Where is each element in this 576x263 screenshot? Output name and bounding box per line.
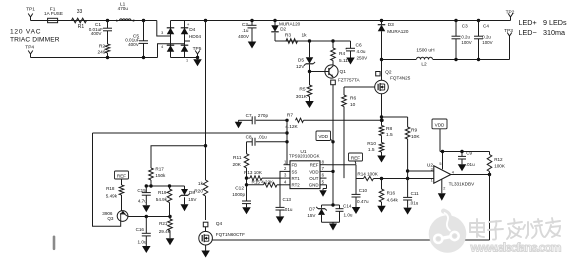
resistor R21 xyxy=(169,217,171,220)
resistor R20 xyxy=(203,180,208,196)
svg-text:MURA120: MURA120 xyxy=(387,29,409,34)
svg-text:www.elecfans.com: www.elecfans.com xyxy=(470,241,562,255)
svg-text:SS: SS xyxy=(292,169,298,174)
svg-text:150k: 150k xyxy=(155,173,166,178)
resistor R10 xyxy=(381,136,383,143)
svg-text:GND: GND xyxy=(309,183,319,188)
svg-text:R5: R5 xyxy=(299,86,305,92)
svg-text:R2: R2 xyxy=(99,44,105,50)
resistor R15 xyxy=(247,184,264,186)
ground at C13 xyxy=(276,216,285,223)
resistor R3 xyxy=(286,39,298,44)
wire LED return rail xyxy=(433,59,510,61)
wire VDD clamp bottom xyxy=(322,221,340,223)
wire L2 node xyxy=(380,58,383,61)
net label VDD box U1 xyxy=(316,131,331,141)
ground at R21 xyxy=(166,238,175,245)
capacitor C3 xyxy=(454,19,457,22)
svg-text:1: 1 xyxy=(431,178,433,182)
svg-text:310ma: 310ma xyxy=(543,28,565,37)
svg-text:TPS92010DGK: TPS92010DGK xyxy=(289,154,320,159)
wire Q4 drain line xyxy=(204,19,207,22)
svg-text:D4: D4 xyxy=(189,27,195,33)
resistor R2 xyxy=(107,31,109,44)
capacitor C13 xyxy=(276,206,285,208)
pad Q2 gate square xyxy=(376,72,380,76)
svg-text:TP1: TP1 xyxy=(26,7,35,13)
svg-text:FQT1N60CTF: FQT1N60CTF xyxy=(216,232,245,237)
ground at D8 xyxy=(181,204,189,211)
svg-text:C11: C11 xyxy=(411,191,420,196)
resistor R12 xyxy=(489,152,491,155)
svg-text:4.64k: 4.64k xyxy=(387,197,399,202)
svg-text:100K: 100K xyxy=(494,164,506,169)
ground at R5 xyxy=(305,101,314,108)
svg-text:1500 uH: 1500 uH xyxy=(416,48,435,54)
svg-text:C3: C3 xyxy=(462,23,468,28)
svg-text:3: 3 xyxy=(431,167,433,171)
svg-text:1.5: 1.5 xyxy=(386,132,393,138)
svg-text:R13 10K: R13 10K xyxy=(244,170,263,175)
wire FB node xyxy=(285,119,288,122)
svg-text:1.5: 1.5 xyxy=(368,147,375,153)
svg-text:+: + xyxy=(187,22,190,27)
resistor R17 xyxy=(151,146,206,168)
capacitor C1 xyxy=(106,19,109,22)
svg-text:VDD: VDD xyxy=(435,123,445,128)
svg-text:C13: C13 xyxy=(283,197,292,202)
svg-text:R12: R12 xyxy=(494,157,503,162)
wire VDD U2 rail xyxy=(440,151,490,153)
resistor R5 xyxy=(309,72,311,86)
ground at C16 xyxy=(142,246,151,253)
svg-text:400V: 400V xyxy=(91,31,103,36)
diode bridge D4 left leg xyxy=(170,21,172,58)
wire AC line top xyxy=(31,20,157,22)
svg-text:R1: R1 xyxy=(78,24,85,30)
svg-text:L2: L2 xyxy=(421,62,427,68)
capacitor C16 xyxy=(145,217,147,234)
ground at C12 xyxy=(242,207,251,214)
svg-text:TL331KDBV: TL331KDBV xyxy=(449,182,475,187)
svg-text:4: 4 xyxy=(161,45,163,49)
ground at U1 GND pin xyxy=(326,185,328,189)
net label REF box Q3 xyxy=(115,171,129,179)
net label REF box xyxy=(349,153,363,161)
fuse F1 xyxy=(48,18,58,22)
svg-text:.1u: .1u xyxy=(242,28,249,33)
watermark logo xyxy=(429,211,467,253)
svg-text:TP2: TP2 xyxy=(506,9,515,15)
svg-text:3: 3 xyxy=(161,31,163,35)
svg-text:VDD: VDD xyxy=(318,134,328,139)
svg-text:TP4: TP4 xyxy=(25,44,34,50)
svg-text:C16: C16 xyxy=(136,227,145,232)
svg-text:R7: R7 xyxy=(287,112,293,118)
resistor R19 xyxy=(169,186,171,189)
svg-text:D8: D8 xyxy=(189,190,195,195)
svg-text:OUT: OUT xyxy=(309,176,319,181)
svg-text:15V: 15V xyxy=(188,197,197,202)
capacitor C11 xyxy=(403,196,412,198)
svg-text:TRIAC DIMMER: TRIAC DIMMER xyxy=(10,37,60,44)
wire FB long xyxy=(93,132,288,134)
wire to R9 xyxy=(382,116,408,118)
svg-text:FZT757TA: FZT757TA xyxy=(338,77,361,82)
svg-text:D3: D3 xyxy=(388,22,394,28)
svg-text:R4: R4 xyxy=(339,51,345,57)
wire VDD rail vertical xyxy=(332,85,334,205)
svg-text:FB: FB xyxy=(292,163,298,168)
pad Q4 gate square xyxy=(203,222,208,227)
transistor Q2 xyxy=(375,80,389,94)
svg-text:REF: REF xyxy=(117,173,126,178)
ground at R16 xyxy=(377,206,386,213)
mark gray bar xyxy=(53,236,56,251)
wire U2 output xyxy=(451,174,490,176)
svg-text:4.0u: 4.0u xyxy=(357,49,366,54)
svg-text:C9: C9 xyxy=(466,151,472,156)
ground at C15 xyxy=(142,205,150,212)
svg-text:R17: R17 xyxy=(155,166,164,171)
svg-text:R3: R3 xyxy=(285,32,291,38)
svg-text:5.49k: 5.49k xyxy=(106,193,118,198)
svg-text:D2: D2 xyxy=(280,27,286,32)
watermark chinese text xyxy=(470,219,484,237)
svg-text:10K: 10K xyxy=(411,134,420,140)
ground at C11 xyxy=(403,208,412,215)
svg-text:FQT4N25: FQT4N25 xyxy=(390,76,411,81)
wire bias rail xyxy=(275,40,351,42)
resistor R6 xyxy=(344,86,375,88)
svg-text:.01u: .01u xyxy=(258,134,267,139)
svg-text:R11: R11 xyxy=(233,155,242,161)
svg-text:0.2u: 0.2u xyxy=(482,35,491,40)
svg-text:VDD: VDD xyxy=(309,169,318,174)
wire AC line bottom xyxy=(31,57,158,59)
diode D7 zener xyxy=(321,205,323,208)
wire R6 to OUT xyxy=(343,107,345,179)
wire VDD pin7 xyxy=(327,170,334,172)
resistor R4 xyxy=(331,39,334,42)
svg-text:C8: C8 xyxy=(246,134,252,139)
diode D5 zener xyxy=(308,39,311,42)
svg-text:.01u: .01u xyxy=(284,207,293,212)
wire FB down-left xyxy=(93,133,121,226)
ground at C7 xyxy=(238,120,240,122)
svg-text:C15: C15 xyxy=(137,188,146,193)
ground at C2 xyxy=(248,42,257,49)
op-amp U2 xyxy=(434,166,451,183)
wire Q2 source xyxy=(381,94,383,126)
capacitor C2 xyxy=(250,19,253,22)
svg-text:R18: R18 xyxy=(106,186,115,191)
ground at C6 xyxy=(346,58,355,65)
svg-text:+: + xyxy=(345,46,348,51)
ground at C10 xyxy=(352,207,361,214)
svg-text:R14 100K: R14 100K xyxy=(357,171,378,176)
svg-text:RT2: RT2 xyxy=(292,183,301,188)
diode D8 zener xyxy=(184,186,186,189)
inductor L2 xyxy=(417,57,433,59)
capacitor C12 xyxy=(242,200,251,202)
inductor L1 xyxy=(120,19,132,21)
svg-text:Q3: Q3 xyxy=(107,216,114,221)
ground at R10 xyxy=(377,156,386,163)
svg-text:120 VAC: 120 VAC xyxy=(10,28,41,35)
svg-text:R9: R9 xyxy=(411,127,417,133)
svg-text:R20: R20 xyxy=(194,188,203,194)
ground at Q4 source xyxy=(205,245,207,251)
svg-text:20K: 20K xyxy=(232,162,241,168)
capacitor C6 xyxy=(350,41,352,48)
capacitor C15 xyxy=(145,186,147,193)
svg-text:R19: R19 xyxy=(158,190,167,195)
svg-text:Q1: Q1 xyxy=(340,69,347,75)
resistor R11 xyxy=(246,142,248,154)
svg-text:15V: 15V xyxy=(307,213,316,218)
wire gate drive long xyxy=(212,239,490,241)
svg-text:C10: C10 xyxy=(359,188,368,193)
resistor R14 xyxy=(356,178,364,180)
svg-text:R8: R8 xyxy=(386,126,392,132)
svg-text:100V: 100V xyxy=(482,40,492,45)
capacitor C9 xyxy=(461,152,463,157)
capacitor C14 xyxy=(339,205,341,209)
svg-text:1A FUSE: 1A FUSE xyxy=(44,11,63,16)
pad Q1 emitter square xyxy=(331,80,336,85)
svg-text:R6: R6 xyxy=(350,95,356,101)
svg-text:4: 4 xyxy=(452,170,454,174)
transistor Q1 xyxy=(325,65,338,78)
svg-text:400V: 400V xyxy=(238,34,250,39)
resistor R13 xyxy=(247,177,251,179)
svg-text:54.9k: 54.9k xyxy=(156,197,168,202)
svg-text:D5: D5 xyxy=(298,57,304,63)
svg-text:9 LEDs: 9 LEDs xyxy=(543,18,567,27)
svg-text:249: 249 xyxy=(97,49,105,55)
svg-text:C6: C6 xyxy=(356,42,362,48)
net label VDD box U2 xyxy=(432,119,447,129)
resistor R9 xyxy=(407,117,409,127)
svg-text:REF: REF xyxy=(351,155,360,160)
svg-text:470u: 470u xyxy=(118,6,129,11)
svg-text:2: 2 xyxy=(443,186,445,190)
svg-text:R10: R10 xyxy=(367,141,376,147)
svg-text:10: 10 xyxy=(350,102,356,108)
svg-text:1.0u: 1.0u xyxy=(138,240,147,245)
svg-text:1000p: 1000p xyxy=(232,192,245,197)
svg-text:Q4: Q4 xyxy=(216,221,223,227)
svg-text:C14: C14 xyxy=(343,203,352,208)
svg-text:1k: 1k xyxy=(301,32,307,38)
svg-text:0.47u: 0.47u xyxy=(357,199,369,204)
ground at C9 xyxy=(458,164,467,171)
svg-text:LED−: LED− xyxy=(519,28,537,37)
svg-text:REF: REF xyxy=(310,163,319,168)
resistor R16 xyxy=(381,179,383,190)
resistor R18 xyxy=(121,179,123,185)
wire into Q4 xyxy=(205,227,207,232)
wire SS xyxy=(280,171,284,207)
wire bridge negative rail xyxy=(171,57,198,59)
svg-text:100V: 100V xyxy=(461,40,471,45)
resistor R1 xyxy=(71,18,86,23)
svg-text:C4: C4 xyxy=(483,23,489,28)
diode D2 xyxy=(273,19,276,22)
wire Q1 base xyxy=(310,71,325,73)
svg-text:LED+: LED+ xyxy=(519,18,537,27)
svg-text:1.0u: 1.0u xyxy=(344,213,353,218)
svg-text:12V: 12V xyxy=(296,64,305,70)
capacitor C5 xyxy=(142,19,145,22)
wire Q3 collector xyxy=(128,216,170,218)
svg-text:250V: 250V xyxy=(357,55,369,60)
svg-text:R21: R21 xyxy=(159,221,168,226)
transistor Q4 xyxy=(199,231,213,245)
svg-text:400V: 400V xyxy=(128,42,140,47)
svg-text:R16: R16 xyxy=(387,190,396,195)
wire sense to comparator xyxy=(407,139,409,197)
capacitor C8 xyxy=(247,141,253,143)
svg-text:R15 4.22K: R15 4.22K xyxy=(252,179,275,184)
resistor R8 xyxy=(379,126,384,136)
svg-text:.01u: .01u xyxy=(409,201,418,206)
wire VDD clamp top xyxy=(322,204,340,206)
svg-text:.01u: .01u xyxy=(466,162,475,167)
resistor R7 xyxy=(296,118,304,122)
diode D3 xyxy=(380,19,383,22)
svg-text:D7: D7 xyxy=(309,206,315,211)
svg-text:1k: 1k xyxy=(198,181,204,187)
wire top DC rail xyxy=(171,20,511,22)
svg-text:0.2u: 0.2u xyxy=(461,35,470,40)
svg-text:C7: C7 xyxy=(246,113,252,118)
svg-text:33: 33 xyxy=(77,9,83,15)
svg-text:270p: 270p xyxy=(258,113,269,118)
ground at U2 xyxy=(441,180,443,194)
wire R17 node xyxy=(146,185,184,187)
svg-text:29.4k: 29.4k xyxy=(159,229,171,234)
IC U1 TPS92010 xyxy=(290,161,320,189)
svg-text:1: 1 xyxy=(186,59,188,63)
wire REF net xyxy=(327,164,357,166)
ground at VDD clamp xyxy=(332,222,334,223)
ground at TP5 xyxy=(197,58,199,60)
svg-text:RT1: RT1 xyxy=(292,176,301,181)
capacitor C10 xyxy=(355,179,357,195)
svg-text:4.7u: 4.7u xyxy=(138,198,147,203)
transistor Q3 xyxy=(117,211,128,222)
svg-text:301K: 301K xyxy=(296,94,308,100)
svg-text:HD04: HD04 xyxy=(189,34,202,40)
svg-text:C12: C12 xyxy=(235,186,244,192)
svg-text:5: 5 xyxy=(439,162,441,166)
diode bridge D4 right leg xyxy=(184,21,186,58)
svg-text:TP5: TP5 xyxy=(193,46,202,52)
capacitor C7 xyxy=(239,119,253,121)
capacitor C4 xyxy=(477,19,480,22)
